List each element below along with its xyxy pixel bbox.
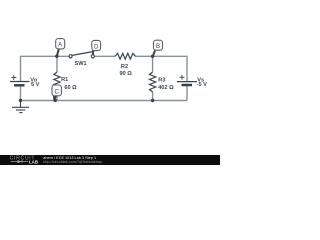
battery Vs short plate [182,84,193,87]
resistor R2 zigzag [115,53,135,59]
svg-text:B: B [156,43,160,50]
wire R3 bottom lead [152,92,154,101]
svg-text:http://circuitlab.com/7qRtahtd: http://circuitlab.com/7qRtahtdsbtwp [43,160,102,164]
battery Vs long plate [177,81,197,83]
svg-text:SW1: SW1 [75,61,87,67]
svg-text:R3: R3 [158,77,165,83]
svg-text:R1: R1 [61,77,68,83]
node D leader [92,50,94,55]
resistor R1 zigzag [54,72,60,92]
switch SW1 terminal D [91,55,94,58]
wire R2 to node B to Vs top [135,56,187,81]
junction dot ground [19,99,22,102]
junction dot node A [55,55,58,58]
switch SW1 terminal A [69,55,72,58]
svg-text:60 Ω: 60 Ω [64,85,77,91]
svg-text:402 Ω: 402 Ω [158,85,174,91]
junction dot R3 bottom [151,99,154,102]
svg-text:LAB: LAB [29,160,38,165]
junction dot node C [54,99,57,102]
wire left rail and top bus to switch [21,56,70,81]
wire Vo bottom lead [20,85,22,100]
svg-text:D: D [94,43,99,50]
node B leader [152,50,156,56]
svg-text:-5 V: -5 V [197,82,208,88]
svg-text:90 Ω: 90 Ω [119,71,132,77]
wire R3 top lead [152,56,154,72]
logo diode triangle [18,160,22,163]
node A label box [56,39,65,49]
battery Vo short plate [14,84,25,87]
node B label box [154,40,163,50]
logo wire-diode [11,160,29,163]
wire R1 bottom lead [56,92,58,101]
battery Vo plus sign [11,75,16,80]
wire bottom bus [21,100,188,102]
wire Vs bottom lead [186,85,188,101]
node A leader [56,49,60,57]
node C label box [52,85,61,96]
svg-text:R2: R2 [121,64,128,70]
footer bar [0,155,220,165]
svg-text:C: C [54,88,59,95]
node C leader [53,95,57,101]
switch SW1 lever [72,51,94,55]
resistor R3 zigzag [150,72,156,92]
battery Vo long plate [10,81,30,83]
battery Vs plus sign [180,75,185,80]
wire R1 top lead [56,56,58,72]
wire switch to R2 [94,55,115,57]
junction dot node B [151,55,154,58]
ground [12,101,29,113]
svg-text:5 V: 5 V [31,82,40,88]
node D label box [92,40,101,50]
